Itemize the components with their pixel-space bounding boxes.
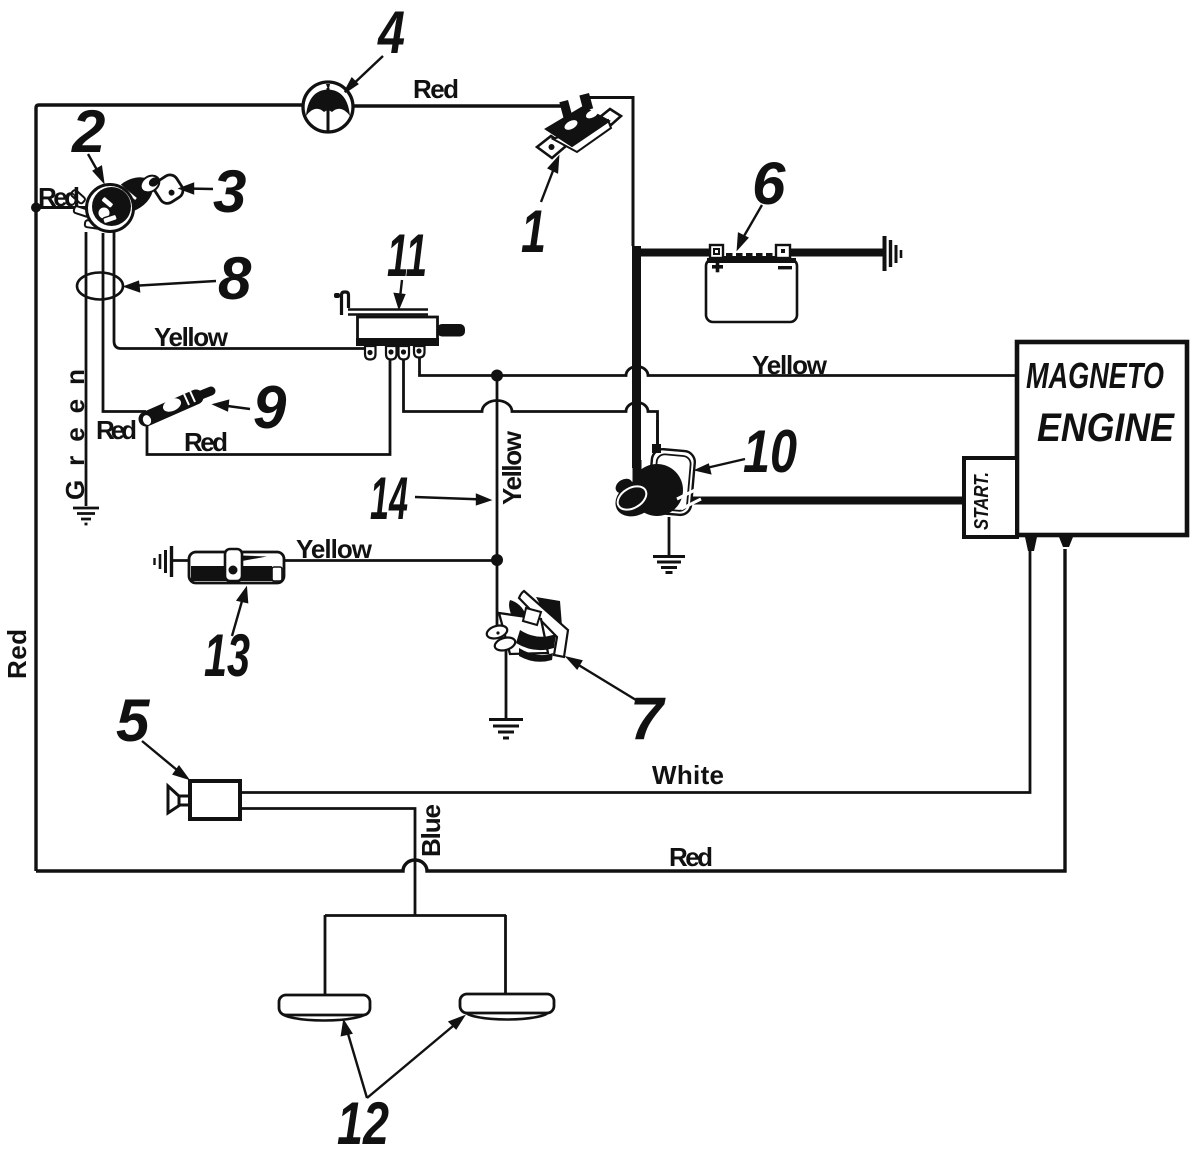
svg-text:Yellow: Yellow [752, 350, 828, 380]
headlight 12 left [279, 995, 370, 1021]
svg-text:10: 10 [743, 418, 797, 485]
arrow 13 [232, 594, 244, 636]
wire red to ignition switch [36, 206, 88, 209]
wire green from switch to ground [85, 232, 88, 506]
wire blue [240, 809, 415, 916]
node junction yellow switch7 [491, 554, 503, 566]
svg-text:Red: Red [413, 74, 459, 104]
svg-text:Red: Red [2, 629, 32, 679]
svg-text:8: 8 [218, 245, 252, 312]
connector 5 [168, 781, 240, 819]
wire bottom red [36, 549, 1065, 871]
battery 6 [706, 245, 797, 322]
labels wire colors [2, 74, 828, 872]
node junction left border [31, 203, 41, 213]
arrow 11 [400, 280, 403, 302]
headlight 12 right [460, 994, 554, 1020]
diode module 13 [155, 546, 285, 583]
arrow 2 [88, 154, 101, 177]
wire thick battery feed [633, 246, 966, 501]
ground green [73, 508, 99, 524]
svg-text:Blue: Blue [416, 804, 446, 857]
svg-text:12: 12 [337, 1090, 389, 1157]
arrow 9 [220, 405, 250, 409]
harness loop 8 [77, 273, 123, 300]
wire red switch to component 9 [103, 233, 146, 412]
start terminal box [964, 458, 1017, 537]
svg-text:Yellow: Yellow [296, 534, 373, 564]
svg-text:1: 1 [521, 198, 546, 265]
arrow 4 [348, 56, 383, 89]
wire white [240, 548, 1030, 793]
wire yellow switch11 tab4 to magneto [420, 357, 1018, 376]
wire from switch11 tab3 to solenoid [404, 357, 658, 449]
magneto engine box [1017, 342, 1187, 535]
starter solenoid 10 [609, 420, 701, 524]
svg-text:Red: Red [96, 415, 137, 445]
wire breaker to battery drop [587, 98, 633, 247]
interlock switch 11 [334, 292, 465, 360]
svg-text:MAGNETO: MAGNETO [1026, 355, 1164, 396]
svg-text:13: 13 [204, 622, 250, 689]
arrow 1 [541, 163, 556, 202]
ground switch7 [489, 720, 523, 739]
node junction yellow [491, 370, 503, 382]
svg-text:Red: Red [669, 842, 713, 872]
ground solenoid [653, 557, 685, 573]
circuit breaker 1 [537, 93, 621, 158]
ground battery [885, 236, 902, 271]
magneto terminal left [1025, 537, 1037, 551]
svg-text:Red: Red [184, 427, 228, 457]
ammeter 4 [303, 82, 353, 133]
wire left border red vertical [34, 207, 37, 871]
arrow 12 left [346, 1027, 367, 1098]
svg-text:11: 11 [387, 222, 427, 289]
callout numbers [71, 0, 797, 1157]
svg-text:3: 3 [213, 158, 246, 225]
wire solenoid ground [668, 517, 671, 556]
arrow 14 [415, 497, 484, 500]
svg-text:6: 6 [752, 150, 786, 217]
svg-text:Red: Red [38, 182, 80, 212]
svg-text:Yellow: Yellow [497, 430, 527, 505]
svg-text:Yellow: Yellow [154, 322, 229, 352]
arrow 5 [142, 741, 183, 775]
svg-text:START.: START. [971, 472, 993, 530]
arrow 8 [131, 281, 216, 286]
wire yellow switch to switch11 [114, 231, 367, 349]
rocker switch 7 [485, 591, 568, 662]
wire ground switch7 [505, 650, 508, 719]
svg-text:White: White [652, 760, 724, 790]
wire red component9 to switch11 [147, 360, 390, 455]
svg-text:14: 14 [370, 465, 408, 532]
wire yellow component13 [246, 559, 497, 562]
callout arrows [88, 56, 762, 1098]
arrow 3 [186, 187, 213, 190]
arrow 10 [702, 459, 745, 469]
fuse holder 9 [141, 391, 211, 426]
arrow 12 right [367, 1021, 459, 1098]
svg-text:ENGINE: ENGINE [1037, 406, 1175, 450]
svg-text:7: 7 [630, 685, 666, 752]
wire thick solenoid to start [688, 497, 966, 505]
wire lights tee [325, 915, 506, 996]
wire top border red [36, 105, 303, 207]
arrow 6 [740, 205, 762, 243]
arrow 7 [572, 661, 636, 700]
ignition switch 2 [70, 170, 186, 232]
magneto terminal right [1059, 537, 1073, 547]
wire yellow vertical to switch7 [496, 376, 499, 629]
svg-text:9: 9 [253, 374, 287, 441]
